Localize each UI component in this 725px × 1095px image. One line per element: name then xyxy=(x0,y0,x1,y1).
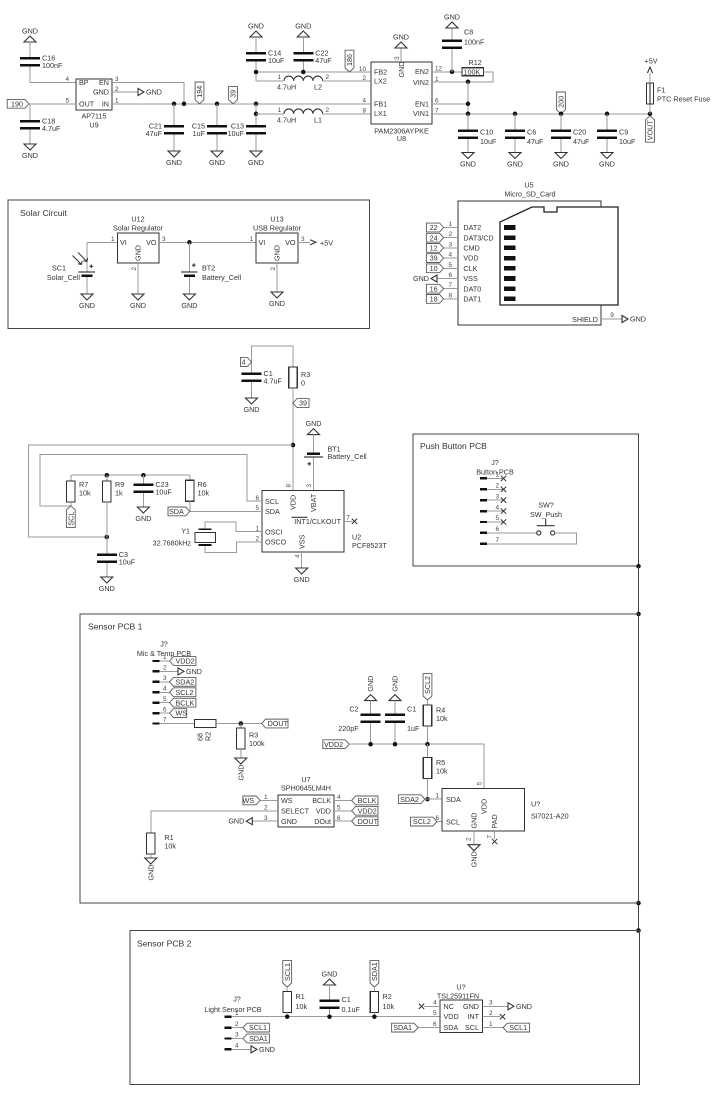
svg-text:GND: GND xyxy=(130,301,146,310)
svg-text:LX2: LX2 xyxy=(374,77,387,86)
ground flag above BT1 xyxy=(308,429,320,435)
net label BCLK at U7 pin 4 xyxy=(334,799,352,801)
svg-text:GND: GND xyxy=(146,865,155,881)
ground flag above C1 sensor xyxy=(389,695,401,701)
svg-text:5: 5 xyxy=(65,97,69,104)
svg-text:39: 39 xyxy=(299,399,307,408)
+5V output flag of U13 xyxy=(298,241,310,243)
resistor R2 68 xyxy=(195,720,216,728)
svg-text:GND: GND xyxy=(134,245,143,261)
svg-text:1: 1 xyxy=(495,472,499,479)
ground below R1 xyxy=(145,858,157,864)
svg-text:6: 6 xyxy=(163,706,167,713)
svg-text:GND: GND xyxy=(209,158,225,167)
net label VDD2 at U7 pin 5 xyxy=(334,810,352,812)
main rail pin1 to TSL VDD xyxy=(232,1016,440,1018)
svg-text:GND: GND xyxy=(248,22,264,31)
SD card contact pads xyxy=(504,225,516,230)
net label WS xyxy=(170,709,187,718)
svg-text:GND: GND xyxy=(391,676,400,692)
svg-text:PCF8523T: PCF8523T xyxy=(352,541,387,550)
svg-text:6: 6 xyxy=(435,97,439,104)
net label SDA1 above R2 xyxy=(370,961,379,987)
net label SCL1 above R1 xyxy=(283,961,292,987)
capacitor C8 100nF xyxy=(451,49,453,72)
svg-text:2: 2 xyxy=(326,74,330,81)
svg-text:5: 5 xyxy=(433,1010,437,1017)
svg-text:10uF: 10uF xyxy=(155,487,172,496)
svg-text:SCL2: SCL2 xyxy=(413,817,431,826)
svg-text:DAT3/CD: DAT3/CD xyxy=(463,233,493,242)
svg-text:3: 3 xyxy=(115,76,119,83)
svg-text:7: 7 xyxy=(486,835,493,839)
svg-text:FB2: FB2 xyxy=(374,68,387,77)
svg-text:GND: GND xyxy=(228,817,244,826)
U? NC pin 4 no-connect xyxy=(424,1005,440,1007)
ground below C15 xyxy=(211,151,223,157)
svg-text:3: 3 xyxy=(448,241,452,248)
svg-text:GND: GND xyxy=(166,158,182,167)
wire C1 to R3 top link xyxy=(252,346,294,373)
svg-text:C9: C9 xyxy=(619,128,628,137)
no-connect pin 5 xyxy=(501,519,506,524)
net label 24 xyxy=(426,233,443,242)
net label 39 top xyxy=(229,87,238,104)
ground flag at VSS xyxy=(431,275,437,282)
svg-text:4: 4 xyxy=(495,504,499,511)
svg-text:2: 2 xyxy=(235,1021,239,1028)
J? pin 7 xyxy=(153,722,160,724)
svg-text:SCL2: SCL2 xyxy=(176,688,194,697)
capacitor C13 10uF xyxy=(255,104,257,125)
svg-text:3: 3 xyxy=(162,236,166,243)
wire 190 label to U9 OUT pin 5 xyxy=(29,103,76,105)
svg-text:1uF: 1uF xyxy=(193,129,206,138)
svg-text:Light Sensor PCB: Light Sensor PCB xyxy=(204,1005,261,1014)
svg-text:BP: BP xyxy=(79,78,89,87)
ground flag at pin 4 xyxy=(232,1048,251,1050)
svg-text:4.7uH: 4.7uH xyxy=(277,82,296,91)
svg-text:GND: GND xyxy=(397,62,406,78)
ground flag at U9 pin 2 xyxy=(112,91,138,93)
svg-text:1: 1 xyxy=(489,1021,493,1028)
J? pin 3 light sensor xyxy=(225,1037,232,1039)
svg-text:INT: INT xyxy=(467,1012,479,1021)
resistor R1 10k light xyxy=(286,987,288,992)
svg-text:U?: U? xyxy=(531,800,540,809)
svg-text:6: 6 xyxy=(448,272,452,279)
svg-text:VDD: VDD xyxy=(463,254,478,263)
svg-text:10uF: 10uF xyxy=(268,56,285,65)
svg-text:U5: U5 xyxy=(524,181,533,190)
svg-text:GND: GND xyxy=(93,88,109,97)
svg-text:GND: GND xyxy=(269,299,285,308)
U13 GND pin 2 xyxy=(276,263,278,292)
svg-text:EN2: EN2 xyxy=(415,67,429,76)
svg-text:SC1: SC1 xyxy=(52,264,66,273)
svg-text:1k: 1k xyxy=(115,489,123,498)
svg-text:GND: GND xyxy=(413,274,429,283)
svg-text:SCL1: SCL1 xyxy=(283,963,292,981)
svg-text:GND: GND xyxy=(444,13,460,22)
svg-text:GND: GND xyxy=(281,817,297,826)
junction at C15 xyxy=(215,102,220,107)
net label 200 xyxy=(557,92,566,114)
main output wire of U9 to U8 FB1 xyxy=(112,103,371,105)
J? pin 3 xyxy=(480,499,487,501)
svg-text:194: 194 xyxy=(195,86,204,98)
svg-text:10k: 10k xyxy=(383,1002,395,1011)
svg-text:GND: GND xyxy=(470,813,479,829)
svg-text:47uF: 47uF xyxy=(315,56,332,65)
svg-text:SDA1: SDA1 xyxy=(249,1034,268,1043)
svg-text:J?: J? xyxy=(491,458,499,467)
VDD2 rail wire xyxy=(349,744,484,788)
svg-text:GND: GND xyxy=(248,158,264,167)
svg-text:BCLK: BCLK xyxy=(176,698,195,707)
svg-text:16: 16 xyxy=(430,284,438,293)
J? pin 7 xyxy=(480,543,487,545)
net label SDA xyxy=(168,507,190,516)
ground flag above C22 xyxy=(297,31,309,37)
svg-text:Y1: Y1 xyxy=(181,527,190,536)
net label SCL2 above R4 xyxy=(423,674,432,700)
svg-text:U13: U13 xyxy=(270,215,283,224)
svg-text:AP7115: AP7115 xyxy=(81,112,106,121)
svg-text:CMD: CMD xyxy=(463,244,479,253)
wire pin 6 to switch xyxy=(487,532,537,534)
svg-text:3: 3 xyxy=(489,1000,493,1007)
svg-text:VDD2: VDD2 xyxy=(358,806,377,815)
svg-text:186: 186 xyxy=(345,54,354,66)
svg-text:4: 4 xyxy=(362,97,366,104)
svg-text:IN: IN xyxy=(102,99,109,108)
svg-text:7: 7 xyxy=(495,537,499,544)
net label WS at U7 pin 1 xyxy=(260,799,278,801)
svg-text:4: 4 xyxy=(433,1000,437,1007)
svg-text:32.7680kHz: 32.7680kHz xyxy=(153,538,192,547)
svg-text:2: 2 xyxy=(270,267,277,271)
svg-text:1: 1 xyxy=(163,654,167,661)
net label SDA2 xyxy=(399,795,425,804)
svg-text:100nF: 100nF xyxy=(42,61,63,70)
wire R2 to DOUT xyxy=(216,723,262,725)
ground flag above C2 xyxy=(365,695,377,701)
junction VDD rail xyxy=(291,443,296,448)
svg-text:SCL: SCL xyxy=(446,817,460,826)
Solar Circuit boundary box xyxy=(8,200,370,328)
svg-text:4: 4 xyxy=(242,358,246,367)
svg-text:4: 4 xyxy=(448,252,452,259)
net label SCL1 at pin 2 xyxy=(232,1027,243,1029)
svg-text:6: 6 xyxy=(433,1021,437,1028)
wire SC1 to U12 VI xyxy=(87,241,118,243)
capacitor C23 10uF xyxy=(141,473,146,478)
svg-text:C8: C8 xyxy=(464,28,473,37)
net label DOUT at U7 pin 6 xyxy=(334,820,352,822)
svg-text:VOUT: VOUT xyxy=(646,120,655,141)
ground below C6 xyxy=(509,153,521,159)
svg-text:3: 3 xyxy=(163,675,167,682)
svg-text:R1: R1 xyxy=(296,992,305,1001)
svg-text:SW?: SW? xyxy=(538,501,554,510)
capacitor C21 47uF xyxy=(173,104,175,125)
svg-text:39: 39 xyxy=(430,254,438,263)
svg-text:SDA: SDA xyxy=(446,795,461,804)
resistor R9 1k xyxy=(105,473,110,478)
junction F1 and VOUT xyxy=(648,112,653,117)
U12 GND pin 2 xyxy=(137,263,139,294)
net label 4 xyxy=(241,358,252,367)
resistor R7 10k xyxy=(70,475,72,481)
svg-text:SCL1: SCL1 xyxy=(509,1023,527,1032)
J? pin 2 xyxy=(153,670,160,672)
svg-text:7: 7 xyxy=(435,107,439,114)
svg-text:3: 3 xyxy=(235,1032,239,1039)
svg-text:6: 6 xyxy=(435,815,439,822)
ground below U13 xyxy=(271,292,283,298)
svg-text:3: 3 xyxy=(495,493,499,500)
capacitor C6 47uF xyxy=(513,112,518,117)
svg-text:10k: 10k xyxy=(164,842,176,851)
resistor R4 10k xyxy=(427,700,429,705)
net label 194 xyxy=(195,82,204,104)
ground flag at U7 pin 3 xyxy=(252,820,278,822)
J? pin 4 light sensor xyxy=(225,1048,232,1050)
svg-text:TSL25911FN: TSL25911FN xyxy=(437,992,479,1001)
svg-text:47uF: 47uF xyxy=(527,137,544,146)
svg-text:SCL2: SCL2 xyxy=(423,676,432,694)
J? pin 6 xyxy=(480,532,487,534)
svg-text:SHIELD: SHIELD xyxy=(572,315,598,324)
svg-text:Push Button PCB: Push Button PCB xyxy=(420,441,487,451)
resistor R1 10k xyxy=(147,833,155,854)
svg-text:DOUT: DOUT xyxy=(268,719,289,728)
svg-text:8: 8 xyxy=(362,107,366,114)
inductor L2 4.7uH xyxy=(284,76,323,81)
svg-text:C1: C1 xyxy=(407,705,416,714)
RTC U2 PCF8523T xyxy=(262,491,344,553)
svg-text:OSCI: OSCI xyxy=(265,527,283,536)
svg-text:Battery_Cell: Battery_Cell xyxy=(202,273,242,282)
ground below U? xyxy=(468,845,480,851)
svg-text:BT2: BT2 xyxy=(202,264,215,273)
ground flag above U8 pin 3 xyxy=(395,42,407,48)
svg-text:SELECT: SELECT xyxy=(281,806,310,815)
wire U7 SELECT to R1 xyxy=(151,811,278,833)
battery BT2 Battery_Cell xyxy=(188,242,190,271)
svg-text:8: 8 xyxy=(448,292,452,299)
svg-text:GND: GND xyxy=(186,667,202,676)
+5V power flag top right xyxy=(649,73,651,83)
VIN1 rail xyxy=(432,113,650,115)
net label 190 xyxy=(7,99,29,108)
svg-text:24: 24 xyxy=(430,233,438,242)
svg-text:VBAT: VBAT xyxy=(309,493,318,512)
wire crystal to OSCO xyxy=(205,542,262,553)
ground below C10 xyxy=(462,153,474,159)
svg-text:47uF: 47uF xyxy=(146,129,163,138)
net label 12 xyxy=(426,244,443,253)
net label SCL1 at U? pin 1 xyxy=(482,1027,503,1029)
svg-text:4: 4 xyxy=(295,554,302,558)
svg-text:SCL: SCL xyxy=(66,512,75,526)
svg-text:DOUT: DOUT xyxy=(358,817,379,826)
svg-text:5: 5 xyxy=(477,781,484,785)
ground below U2 xyxy=(296,568,308,574)
svg-text:SDA1: SDA1 xyxy=(393,1023,412,1032)
svg-text:4.7uH: 4.7uH xyxy=(277,115,296,124)
regulator U9 AP7115 xyxy=(76,79,112,110)
resistor R6 10k xyxy=(189,475,191,480)
net label 16 xyxy=(426,284,443,293)
ground below C23 xyxy=(137,507,149,513)
svg-text:220pF: 220pF xyxy=(338,724,359,733)
U? INT pin 2 no-connect xyxy=(482,1016,500,1018)
regulator U12 Solar Regulator xyxy=(118,233,160,263)
svg-text:GND: GND xyxy=(273,245,282,261)
svg-text:10: 10 xyxy=(359,66,367,73)
svg-text:SDA: SDA xyxy=(444,1023,459,1032)
net label VDD2 xyxy=(170,657,196,666)
svg-text:100K: 100K xyxy=(464,68,481,77)
svg-text:J?: J? xyxy=(160,640,168,649)
svg-text:C6: C6 xyxy=(527,128,536,137)
J? pin 6 xyxy=(153,712,160,714)
svg-text:2: 2 xyxy=(489,1010,493,1017)
ground flag at U? pin 3 xyxy=(482,1005,508,1007)
svg-text:10uF: 10uF xyxy=(480,137,497,146)
net label VOUT xyxy=(646,116,655,142)
battery BT1 Battery_Cell xyxy=(313,435,315,453)
svg-text:7: 7 xyxy=(448,282,452,289)
ground flag above C8 xyxy=(451,28,453,40)
solar cell SC1 xyxy=(86,242,88,271)
svg-text:190: 190 xyxy=(11,99,23,108)
svg-text:VDD: VDD xyxy=(480,799,489,814)
svg-text:200: 200 xyxy=(557,96,566,108)
wire C16 to U9 pin 4 BP xyxy=(30,67,76,83)
J? pin 1 light sensor xyxy=(225,1016,232,1018)
net label 39 xyxy=(426,254,443,263)
svg-text:L1: L1 xyxy=(314,115,322,124)
wire U12 VO to U13 VI xyxy=(159,241,256,243)
net label 18 xyxy=(426,295,443,304)
svg-text:1: 1 xyxy=(249,236,253,243)
wire R3 to U2 VDD xyxy=(292,388,294,491)
svg-text:C1: C1 xyxy=(342,995,351,1004)
svg-text:2: 2 xyxy=(495,483,499,490)
pullup top rail xyxy=(71,474,190,476)
svg-text:Micro_SD_Card: Micro_SD_Card xyxy=(504,190,555,199)
capacitor C20 47uF xyxy=(559,112,564,117)
regulator U13 USB Regulator xyxy=(256,233,298,263)
FB2 wire to U8 xyxy=(256,71,371,73)
svg-text:GND: GND xyxy=(146,88,162,97)
svg-text:NC: NC xyxy=(444,1002,454,1011)
ground below C13 xyxy=(250,151,262,157)
junction VIN2 column xyxy=(466,80,471,85)
svg-text:GND: GND xyxy=(366,676,375,692)
svg-text:10uF: 10uF xyxy=(228,129,245,138)
svg-text:5: 5 xyxy=(163,696,167,703)
wire switch to pin 7 xyxy=(487,533,577,544)
svg-text:GND: GND xyxy=(135,514,151,523)
svg-text:2: 2 xyxy=(362,75,366,82)
J? pin 4 xyxy=(480,510,487,512)
svg-text:3: 3 xyxy=(301,236,305,243)
svg-text:VIN2: VIN2 xyxy=(413,78,429,87)
net label DOUT xyxy=(262,719,288,728)
svg-text:DOut: DOut xyxy=(314,817,331,826)
svg-text:Sensor PCB 1: Sensor PCB 1 xyxy=(88,622,143,632)
svg-text:2: 2 xyxy=(163,665,167,672)
no-connect pin 2 xyxy=(501,487,506,492)
wire C18 to ground xyxy=(29,130,31,145)
svg-text:SDA2: SDA2 xyxy=(400,795,419,804)
Push Button PCB boundary box xyxy=(413,434,639,566)
svg-text:2: 2 xyxy=(326,107,330,114)
svg-text:DAT1: DAT1 xyxy=(463,295,481,304)
wire crystal to OSCI xyxy=(205,522,262,532)
svg-text:2: 2 xyxy=(448,231,452,238)
J? pin 2 light sensor xyxy=(225,1026,232,1028)
capacitor C22 47uF xyxy=(302,37,304,52)
svg-text:GND: GND xyxy=(99,584,115,593)
svg-text:10k: 10k xyxy=(436,767,448,776)
svg-text:GND: GND xyxy=(22,27,38,36)
svg-text:J?: J? xyxy=(233,995,241,1004)
svg-text:GND: GND xyxy=(470,851,479,867)
svg-text:1: 1 xyxy=(448,221,452,228)
svg-text:0.1uF: 0.1uF xyxy=(342,1005,361,1014)
capacitor C1 4.7uF xyxy=(242,373,262,376)
capacitor C1 0.1uF light xyxy=(329,985,331,1000)
svg-text:1: 1 xyxy=(235,1010,239,1017)
svg-text:GND: GND xyxy=(463,1002,479,1011)
svg-text:F1: F1 xyxy=(657,86,665,95)
svg-text:EN: EN xyxy=(99,78,109,87)
capacitor C18 4.7uF xyxy=(20,120,40,123)
svg-text:1: 1 xyxy=(435,793,439,800)
svg-text:1: 1 xyxy=(115,97,119,104)
svg-text:5: 5 xyxy=(448,262,452,269)
svg-text:VO: VO xyxy=(146,238,157,247)
svg-text:Battery_Cell: Battery_Cell xyxy=(328,452,368,461)
svg-text:Sensor PCB 2: Sensor PCB 2 xyxy=(137,939,192,949)
capacitor C16 100nF xyxy=(20,57,40,60)
svg-text:R2: R2 xyxy=(204,732,213,741)
svg-text:7: 7 xyxy=(346,514,350,521)
svg-text:R2: R2 xyxy=(383,992,392,1001)
svg-text:4: 4 xyxy=(65,76,69,83)
svg-text:OUT: OUT xyxy=(79,99,95,108)
wire SDA to U2 xyxy=(190,510,262,512)
svg-text:1: 1 xyxy=(111,236,115,243)
net label SDA1 at U? pin 6 xyxy=(418,1027,440,1029)
svg-text:FB1: FB1 xyxy=(374,100,387,109)
U? PAD pin 7 no-connect xyxy=(494,831,496,839)
svg-text:C2: C2 xyxy=(349,705,358,714)
no-connect pin 4 xyxy=(501,508,506,513)
svg-text:INT1/CLKOUT: INT1/CLKOUT xyxy=(294,517,341,526)
svg-text:100k: 100k xyxy=(249,739,265,748)
svg-text:U?: U? xyxy=(456,983,465,992)
svg-text:18: 18 xyxy=(430,295,438,304)
svg-text:SW_Push: SW_Push xyxy=(530,510,562,519)
junction C14 xyxy=(254,70,259,75)
svg-text:BCLK: BCLK xyxy=(312,796,331,805)
